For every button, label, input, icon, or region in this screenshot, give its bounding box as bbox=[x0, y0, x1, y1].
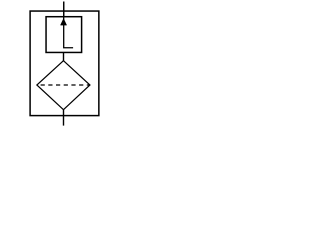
connector box to diamond bbox=[63, 52, 65, 61]
dashed filter element line bbox=[41, 84, 90, 86]
arrowhead (upward) bbox=[61, 19, 67, 26]
filter diamond bbox=[37, 61, 90, 110]
supply line (top inlet) bbox=[63, 2, 65, 17]
enclosure rectangle bbox=[30, 11, 99, 116]
outlet line (bottom) bbox=[63, 110, 65, 126]
internal flow line with bend bbox=[64, 17, 73, 48]
valve box U1 bbox=[46, 17, 82, 53]
